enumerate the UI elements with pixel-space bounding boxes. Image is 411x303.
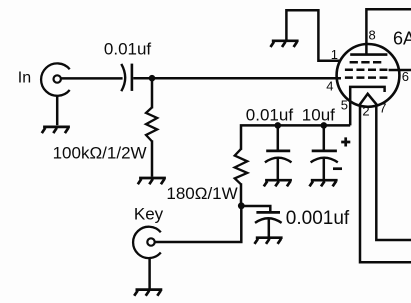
svg-text:6AG7: 6AG7 bbox=[393, 28, 411, 48]
svg-text:8: 8 bbox=[369, 28, 376, 43]
svg-text:5: 5 bbox=[341, 98, 348, 113]
svg-text:10uf: 10uf bbox=[302, 106, 335, 125]
svg-text:1: 1 bbox=[331, 47, 338, 62]
svg-text:0.001uf: 0.001uf bbox=[286, 208, 350, 229]
svg-text:0.01uf: 0.01uf bbox=[104, 40, 152, 59]
svg-text:In: In bbox=[18, 69, 31, 86]
svg-text:Key: Key bbox=[134, 205, 164, 224]
svg-text:2: 2 bbox=[362, 104, 369, 119]
svg-text:100kΩ/1/2W: 100kΩ/1/2W bbox=[53, 144, 147, 163]
svg-text:4: 4 bbox=[326, 79, 333, 94]
svg-text:180Ω/1W: 180Ω/1W bbox=[166, 184, 237, 203]
svg-text:6: 6 bbox=[402, 69, 409, 84]
svg-text:0.01uf: 0.01uf bbox=[246, 106, 294, 125]
svg-text:7: 7 bbox=[379, 101, 386, 116]
